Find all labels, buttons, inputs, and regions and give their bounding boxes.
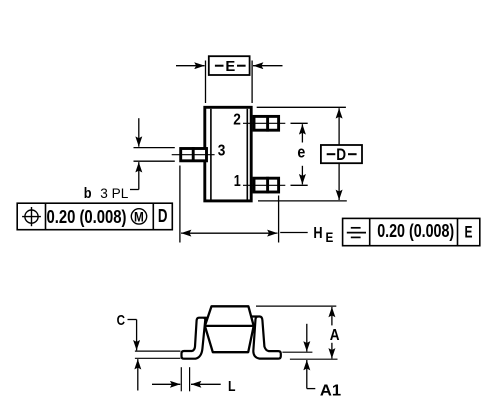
svg-text:C: C: [117, 313, 126, 329]
svg-text:2: 2: [233, 111, 241, 128]
svg-text:D: D: [336, 145, 346, 164]
svg-text:E: E: [465, 223, 473, 242]
svg-text:E: E: [225, 59, 235, 75]
svg-text:1: 1: [234, 173, 241, 190]
svg-text:e: e: [297, 143, 305, 162]
svg-text:0.20 (0.008): 0.20 (0.008): [377, 220, 454, 241]
svg-text:3: 3: [218, 143, 226, 160]
svg-text:3 PL: 3 PL: [100, 185, 128, 201]
svg-text:b: b: [84, 186, 92, 202]
svg-text:H: H: [313, 225, 322, 242]
svg-text:A: A: [330, 327, 340, 344]
svg-text:D: D: [158, 205, 168, 226]
svg-text:0.20 (0.008): 0.20 (0.008): [47, 206, 127, 227]
svg-text:M: M: [134, 209, 144, 224]
svg-text:E: E: [326, 229, 334, 245]
svg-text:L: L: [228, 378, 236, 395]
svg-text:A1: A1: [320, 382, 342, 399]
